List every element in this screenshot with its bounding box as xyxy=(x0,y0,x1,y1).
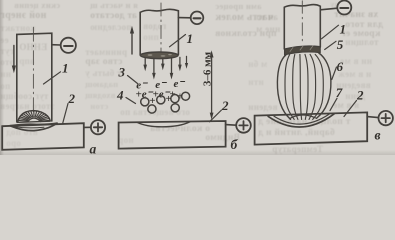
svg-text:5: 5 xyxy=(337,37,344,52)
electrode 1 (fig a) body xyxy=(17,33,52,122)
electrode centerline (fig v) xyxy=(301,1,303,44)
electrode 1 (fig b) body xyxy=(140,9,178,55)
label 2 (fig a) xyxy=(63,91,76,123)
workpiece 2 (fig b) xyxy=(119,121,226,149)
svg-text:а: а xyxy=(90,142,97,156)
label 2 (fig b) xyxy=(210,98,230,122)
svg-text:7: 7 xyxy=(336,85,343,100)
bleed-through text layer xyxy=(14,1,60,10)
arc gap dimension 3-6 mm (fig b) xyxy=(202,50,214,120)
svg-text:2: 2 xyxy=(356,88,364,103)
workpiece 2 (fig v) xyxy=(255,112,368,144)
svg-text:2: 2 xyxy=(221,98,229,113)
lift arrow up (fig b) xyxy=(130,26,134,54)
svg-text:1: 1 xyxy=(62,61,69,76)
label 4 (fig b) xyxy=(116,88,136,104)
svg-text:1: 1 xyxy=(187,31,194,46)
label 2 (fig v) xyxy=(344,88,364,117)
workpiece 2 (fig a) xyxy=(2,123,84,150)
plus terminal (fig v) xyxy=(367,111,393,125)
svg-text:2: 2 xyxy=(68,91,76,106)
svg-text:+: + xyxy=(177,91,183,102)
vapour arrows (fig b) xyxy=(143,56,188,79)
positive ions (fig b) xyxy=(141,91,190,113)
arc column 6 (fig v) xyxy=(277,53,331,119)
weld pool 7 (fig v) xyxy=(268,114,334,127)
plus terminal (fig a) xyxy=(84,120,105,134)
electrode centerline (fig b) xyxy=(160,3,162,52)
minus terminal (fig b) xyxy=(178,11,203,24)
sub-figure letter v xyxy=(375,128,381,143)
label 3 (fig b) xyxy=(118,65,138,84)
contact dome hatched (fig a) xyxy=(18,111,51,123)
molten pool (fig a) xyxy=(10,123,57,130)
label 1 (fig a) xyxy=(44,61,69,85)
label 6 (fig v) xyxy=(332,59,344,80)
electrode 1 (fig v) body xyxy=(284,5,320,49)
svg-text:1: 1 xyxy=(340,22,347,37)
svg-text:б: б xyxy=(231,137,239,152)
svg-text:в: в xyxy=(375,128,381,143)
label 7 (fig v) xyxy=(330,85,343,111)
svg-text:6: 6 xyxy=(337,59,344,74)
electrode centerline (fig a) xyxy=(32,27,34,112)
svg-text:3: 3 xyxy=(118,65,126,80)
svg-text:4: 4 xyxy=(116,88,124,103)
electrons e- (fig b) xyxy=(136,78,186,101)
molten band 5 (fig v) xyxy=(285,46,321,55)
sub-figure letter a xyxy=(90,142,97,157)
label 5 (fig v) xyxy=(325,37,344,52)
sub-figure letter b xyxy=(231,137,239,152)
label 1 (fig b) xyxy=(170,31,194,47)
svg-text:+: + xyxy=(149,95,155,107)
plus terminal (fig b) xyxy=(226,118,251,133)
weld pool depression (fig b) xyxy=(137,122,190,127)
label 1 (fig v) xyxy=(322,22,347,39)
minus terminal (fig a) xyxy=(52,38,76,53)
svg-text:3–6 мм: 3–6 мм xyxy=(202,51,214,86)
molten electrode tip ellipse (fig b) xyxy=(140,52,178,59)
feed arrow down (fig a) xyxy=(12,46,16,74)
svg-text:+: + xyxy=(166,93,172,105)
minus terminal (fig v) xyxy=(320,1,351,15)
